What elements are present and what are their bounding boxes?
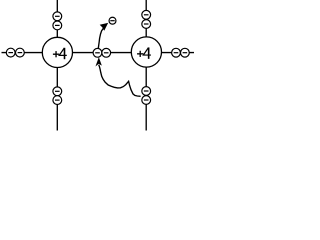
electron pair on middle bond xyxy=(93,48,111,57)
silicon core U1 (+4) left xyxy=(42,37,72,67)
wire: top-right vertical bond xyxy=(145,0,147,37)
silicon core U2 (+4) right xyxy=(131,37,161,67)
electron pair on right bond xyxy=(172,48,190,57)
electron pair on bottom-right bond xyxy=(142,87,151,105)
wire: left horizontal bond xyxy=(2,52,43,54)
electron pair on top-left bond xyxy=(53,12,62,30)
wire: middle horizontal bond between atoms xyxy=(72,52,131,54)
free electron (ejected) xyxy=(109,17,116,24)
arrow: electron from bottom-right bond jumping to middle bond xyxy=(96,58,140,96)
wire: top-left vertical bond xyxy=(56,0,58,38)
electron pair on left bond xyxy=(6,48,24,57)
electron pair on top-right bond xyxy=(142,10,151,28)
arrow: electron leaving middle bond to become free xyxy=(98,23,107,48)
electron pair on bottom-left bond xyxy=(53,87,62,105)
wire: bottom-left vertical bond xyxy=(56,67,58,130)
wire: bottom-right vertical bond xyxy=(145,67,147,131)
wire: right horizontal bond xyxy=(161,52,194,54)
